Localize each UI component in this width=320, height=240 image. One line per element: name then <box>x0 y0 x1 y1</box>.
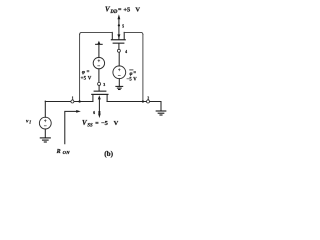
svg-text:V: V <box>114 120 119 127</box>
transistor Q2 PMOS substrate arrow <box>117 34 120 38</box>
svg-text:−: − <box>118 73 121 79</box>
label phi = +5 V <box>81 70 92 82</box>
svg-text:=: = <box>95 121 99 127</box>
node 5 junction dot on substrate lead <box>118 24 120 26</box>
wire output <box>107 102 161 111</box>
svg-text:φ: φ <box>82 70 85 76</box>
wire NMOS source lead <box>92 95 94 102</box>
ground at output <box>156 111 166 115</box>
box left edge <box>79 35 81 102</box>
wire NMOS gate lead <box>98 85 100 90</box>
label VDD = +5 V <box>105 6 140 16</box>
wire phi source to gate node <box>98 69 100 83</box>
label VSS = -5 V <box>82 119 119 128</box>
svg-text:SS: SS <box>87 123 93 128</box>
wire NMOS substrate lead down <box>98 99 100 114</box>
svg-text:=: = <box>87 70 90 75</box>
wire PMOS gate lead <box>118 44 120 50</box>
wire phibar source to ground <box>118 79 120 87</box>
svg-text:I: I <box>28 120 31 125</box>
phi source top arrowhead <box>98 41 101 44</box>
svg-text:3: 3 <box>103 83 105 87</box>
wire PMOS source lead <box>111 32 113 39</box>
overline of phibar <box>130 69 133 71</box>
node 4 terminal circle (PMOS gate) <box>117 49 120 52</box>
source Vphibar circle <box>113 66 126 79</box>
ground under phibar <box>116 86 123 89</box>
svg-text:ON: ON <box>63 150 71 155</box>
wire vI source lead <box>44 101 46 117</box>
svg-text:+5: +5 <box>123 7 130 14</box>
phi source top terminal bar <box>95 44 103 45</box>
wire vI to ground <box>44 129 46 138</box>
svg-text:R: R <box>56 149 61 155</box>
RON arrowhead <box>76 110 81 113</box>
junction dot box left / input wire <box>78 100 80 102</box>
svg-text:DD: DD <box>109 10 117 15</box>
svg-text:=: = <box>118 8 122 14</box>
svg-text:−5: −5 <box>101 120 108 127</box>
svg-text:4: 4 <box>125 50 127 54</box>
svg-text:+5 V: +5 V <box>81 77 92 82</box>
wire VDD lead <box>118 18 120 40</box>
node 6 junction dot on substrate lead <box>98 111 100 113</box>
label phibar = -5 V <box>127 71 138 82</box>
arrowhead to VDD <box>118 14 121 19</box>
ground under vI <box>40 138 50 142</box>
box top edge right <box>124 32 143 34</box>
svg-text:=: = <box>133 71 136 76</box>
source Vphi circle <box>93 57 104 68</box>
svg-text:1: 1 <box>72 97 74 101</box>
transistor Q2 PMOS gate bar <box>113 43 125 44</box>
wire NMOS drain lead <box>106 95 108 102</box>
svg-text:V: V <box>135 7 140 14</box>
box top edge left <box>80 32 112 34</box>
junction dot box right / output wire <box>142 100 144 102</box>
transistor Q2 PMOS channel bar <box>111 39 126 40</box>
svg-text:(b): (b) <box>104 150 113 158</box>
label RON <box>56 149 71 155</box>
RON pointer wire <box>65 111 78 143</box>
wire PMOS drain lead <box>123 32 125 39</box>
node 3 terminal circle (NMOS gate) <box>98 82 101 85</box>
svg-text:5: 5 <box>122 25 124 29</box>
transistor Q1 NMOS substrate arrow <box>98 95 101 99</box>
svg-text:6: 6 <box>93 111 95 115</box>
svg-text:−5 V: −5 V <box>127 77 138 82</box>
svg-text:φ: φ <box>130 71 133 77</box>
label vI <box>26 118 31 124</box>
transistor Q1 NMOS channel bar <box>91 94 108 95</box>
wire input from vI <box>45 101 93 103</box>
box right edge <box>142 35 144 102</box>
wire gate node to phibar source <box>118 52 120 66</box>
source vI circle <box>39 117 51 129</box>
node 1 terminal circle (input) <box>71 100 74 103</box>
svg-text:2: 2 <box>147 97 149 101</box>
arrowhead to VSS <box>98 113 101 118</box>
node 2 terminal circle (output) <box>147 100 150 103</box>
wire phi arrow to phi source <box>98 45 100 58</box>
transistor Q1 NMOS gate bar <box>94 91 107 92</box>
